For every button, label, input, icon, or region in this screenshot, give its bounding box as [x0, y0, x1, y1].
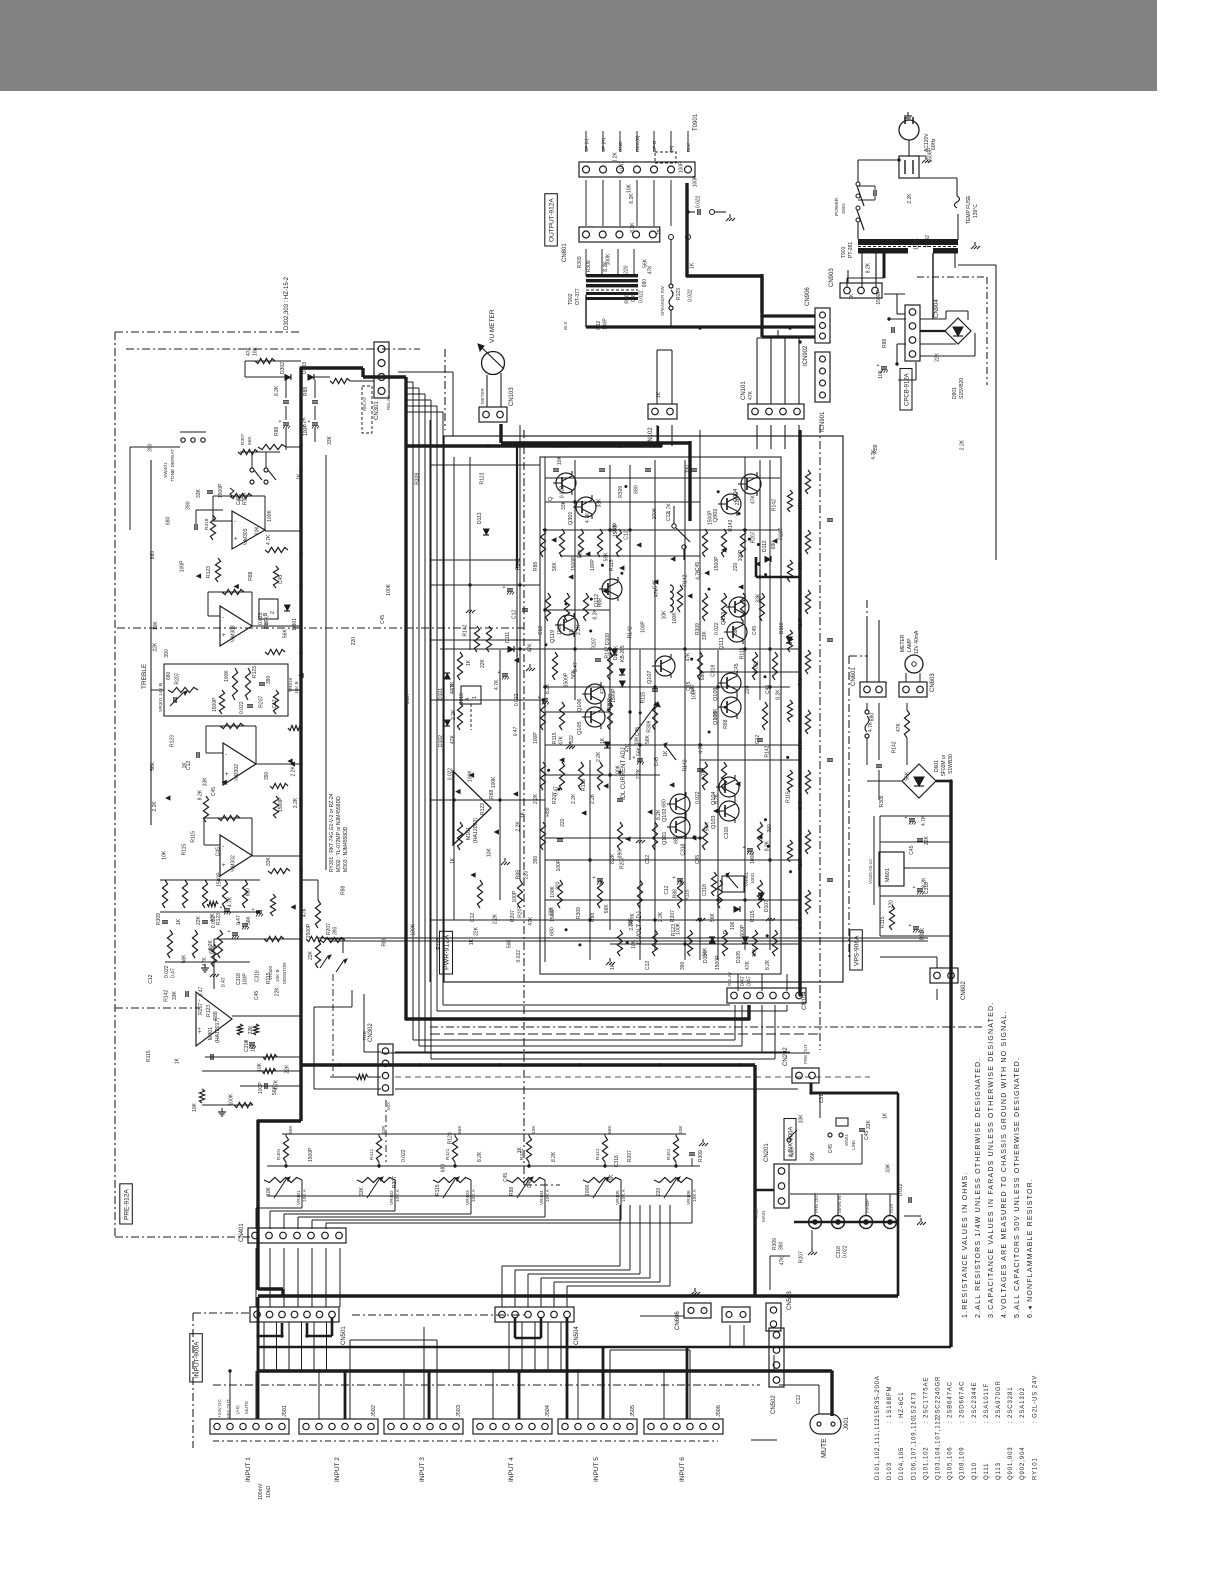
- svg-text:RY301 : RKT-74G,G1-V-2 or RZ-2: RY301 : RKT-74G,G1-V-2 or RZ-24: [329, 793, 335, 872]
- svg-text:C45: C45: [527, 1179, 533, 1188]
- svg-text:MUTE: MUTE: [821, 1438, 828, 1458]
- svg-text:R309: R309: [647, 720, 653, 732]
- svg-text:8.2K: 8.2K: [775, 689, 781, 700]
- svg-text:680: 680: [245, 888, 251, 897]
- svg-text:VR404: VR404: [539, 1190, 545, 1205]
- svg-text:5.ALL CAPACITORS 50V UNLESS OT: 5.ALL CAPACITORS 50V UNLESS OTHERWISE DE…: [1014, 1057, 1021, 1318]
- svg-text:D303: D303: [302, 362, 308, 374]
- svg-text:SP (R): SP (R): [601, 137, 607, 152]
- svg-text:8.2K: 8.2K: [477, 1151, 483, 1162]
- svg-text:R411: R411: [369, 1149, 375, 1160]
- svg-text:PWR-912A: PWR-912A: [444, 935, 451, 970]
- svg-text:R451: R451: [666, 1148, 672, 1160]
- svg-text:2.ALL RESISTORS 1/4W UNLESS OT: 2.ALL RESISTORS 1/4W UNLESS OTHERWISE DE…: [975, 1058, 982, 1318]
- svg-text:C12: C12: [272, 699, 278, 708]
- svg-text:T0901: T0901: [693, 113, 699, 131]
- svg-text:680: 680: [166, 516, 172, 525]
- svg-text:D302,303 : HZ-15-2: D302,303 : HZ-15-2: [284, 276, 290, 330]
- svg-text:0.022: 0.022: [843, 1245, 849, 1258]
- svg-text:J505: J505: [630, 1405, 636, 1417]
- svg-text:22K: 22K: [473, 926, 479, 936]
- svg-text:INPUT 3: INPUT 3: [419, 1457, 426, 1482]
- svg-text:22K: 22K: [480, 658, 486, 668]
- svg-text:1500P: 1500P: [876, 289, 882, 304]
- svg-text:220: 220: [555, 881, 561, 890]
- svg-text:106: 106: [730, 921, 736, 930]
- svg-text:R307: R307: [240, 433, 246, 445]
- svg-text:10K: 10K: [878, 369, 884, 379]
- svg-text:4.7K: 4.7K: [228, 896, 234, 907]
- svg-text:CN904: CN904: [934, 299, 940, 318]
- svg-text:R309: R309: [625, 291, 631, 303]
- svg-text:R88: R88: [213, 1011, 219, 1020]
- svg-text:M302 : TL-072MP or NJM4558DD: M302 : TL-072MP or NJM4558DD: [336, 796, 342, 872]
- svg-text:D104,105: D104,105: [899, 1447, 905, 1480]
- svg-text:10K: 10K: [662, 610, 668, 620]
- svg-text:VR406: VR406: [686, 1190, 692, 1205]
- svg-text:PRE-912A: PRE-912A: [124, 1189, 131, 1220]
- svg-text:R123: R123: [206, 1005, 212, 1017]
- svg-text:+: +: [308, 419, 311, 425]
- svg-text:8.2K: 8.2K: [866, 262, 872, 273]
- svg-text:18K B: 18K B: [294, 681, 299, 694]
- svg-text:8.2K: 8.2K: [405, 693, 411, 704]
- svg-text:100P: 100P: [590, 559, 596, 571]
- svg-text:C318: C318: [255, 970, 261, 982]
- svg-text:56K: 56K: [150, 761, 156, 771]
- svg-text:12V 40mA: 12V 40mA: [914, 630, 920, 654]
- svg-text:R88: R88: [723, 719, 729, 728]
- svg-text:½M303: ½M303: [242, 528, 249, 545]
- svg-text:+: +: [220, 905, 223, 911]
- svg-text:100P: 100P: [556, 859, 562, 871]
- svg-text:C45: C45: [278, 575, 284, 584]
- svg-text:C318: C318: [459, 693, 465, 705]
- svg-text:+: +: [197, 1027, 203, 1030]
- svg-text:R88: R88: [382, 937, 388, 946]
- svg-text:1K: 1K: [520, 811, 526, 818]
- svg-text:1500P: 1500P: [740, 924, 746, 939]
- svg-text:M601: M601: [885, 868, 891, 882]
- svg-text:0.47: 0.47: [221, 977, 227, 987]
- svg-text:56K: 56K: [506, 939, 512, 949]
- svg-text:C12: C12: [470, 913, 476, 922]
- svg-text:C45: C45: [798, 921, 804, 930]
- svg-text:C318: C318: [236, 973, 242, 985]
- svg-text:RY101: RY101: [1032, 1457, 1038, 1480]
- svg-text:5F02M or: 5F02M or: [941, 754, 947, 776]
- svg-text:+: +: [909, 923, 912, 929]
- svg-text:56K: 56K: [604, 904, 610, 914]
- svg-text:1K: 1K: [849, 293, 855, 300]
- svg-text:100K: 100K: [713, 708, 719, 720]
- svg-text:+: +: [238, 920, 241, 926]
- svg-text:M303 : NJM4558DD: M303 : NJM4558DD: [343, 826, 349, 872]
- svg-text:: 2SC2344E: : 2SC2344E: [972, 1382, 978, 1423]
- svg-text:10K A: 10K A: [471, 1188, 477, 1202]
- svg-text:S15VB20: S15VB20: [959, 378, 965, 399]
- svg-text:10K: 10K: [635, 736, 641, 746]
- svg-text:56K: 56K: [288, 1125, 294, 1134]
- svg-text:R88: R88: [489, 790, 495, 799]
- svg-text:10K A: 10K A: [302, 1188, 308, 1202]
- svg-text:+: +: [633, 755, 636, 761]
- svg-text:R88: R88: [545, 807, 551, 816]
- svg-text:100K: 100K: [616, 764, 622, 776]
- svg-text:100P: 100P: [533, 732, 539, 744]
- svg-text:C12: C12: [666, 512, 672, 521]
- svg-text:R421: R421: [445, 1148, 451, 1160]
- svg-text:J901: J901: [844, 1416, 850, 1430]
- svg-text:2.2K: 2.2K: [516, 821, 522, 832]
- svg-text:R207: R207: [198, 1003, 204, 1015]
- svg-text:100P: 100P: [678, 161, 684, 173]
- svg-text:0.47: 0.47: [513, 726, 519, 736]
- svg-text:680: 680: [642, 279, 648, 288]
- svg-text:22K: 22K: [284, 1064, 290, 1074]
- svg-text:C45: C45: [503, 1173, 509, 1182]
- svg-text:8.2K: 8.2K: [545, 683, 551, 694]
- svg-text:R142: R142: [627, 626, 633, 638]
- svg-text:INPUT 5: INPUT 5: [593, 1457, 600, 1482]
- svg-text:680: 680: [661, 799, 667, 808]
- svg-text:Q102: Q102: [662, 809, 668, 822]
- svg-text:1500P: 1500P: [308, 1147, 314, 1162]
- svg-text:+: +: [279, 419, 282, 425]
- svg-text:2.2K: 2.2K: [636, 768, 642, 779]
- svg-text:56K: 56K: [182, 954, 188, 964]
- svg-text:R115: R115: [880, 916, 886, 928]
- svg-text:47K: 47K: [625, 743, 631, 753]
- svg-text:680: 680: [550, 927, 556, 936]
- svg-text:4.7K: 4.7K: [266, 534, 272, 545]
- svg-text:CN601: CN601: [851, 667, 857, 686]
- svg-text:½M302: ½M302: [233, 764, 240, 781]
- svg-text:C318: C318: [702, 884, 708, 896]
- svg-text:R88: R88: [303, 387, 309, 396]
- svg-text:R123: R123: [480, 803, 486, 815]
- svg-text:2: 2: [270, 611, 276, 614]
- svg-text:33K: 33K: [327, 435, 333, 445]
- svg-text:1K: 1K: [656, 391, 662, 398]
- svg-text:680: 680: [870, 713, 876, 722]
- svg-text:10K: 10K: [631, 939, 637, 949]
- svg-text:R115: R115: [191, 831, 197, 843]
- svg-text:4.7K: 4.7K: [450, 681, 456, 692]
- svg-text:47K: 47K: [600, 684, 606, 694]
- svg-text:R207: R207: [259, 696, 265, 708]
- svg-text:MIX OUT: MIX OUT: [226, 1399, 231, 1418]
- svg-text:Q111: Q111: [984, 1463, 990, 1480]
- svg-text:8.2K: 8.2K: [592, 609, 598, 620]
- svg-text:33K: 33K: [264, 620, 270, 630]
- svg-text:R142: R142: [605, 646, 611, 658]
- svg-text:3.CAPACITANCE VALUES IN FARADS: 3.CAPACITANCE VALUES IN FARADS UNLESS OT…: [988, 1002, 995, 1318]
- svg-text:2.2K: 2.2K: [291, 766, 297, 777]
- svg-text:D901: D901: [952, 387, 958, 399]
- svg-text:Q901,903: Q901,903: [1008, 1446, 1014, 1480]
- svg-text:1500P: 1500P: [306, 923, 312, 938]
- svg-text:10K A: 10K A: [621, 1188, 627, 1202]
- svg-text:6.◂ NONFLAMMABLE RESISTOR.: 6.◂ NONFLAMMABLE RESISTOR.: [1027, 1178, 1034, 1318]
- svg-text:R309: R309: [879, 795, 885, 807]
- svg-text:390: 390: [779, 1241, 785, 1250]
- svg-text:CN201: CN201: [764, 1143, 770, 1162]
- svg-text:C45: C45: [216, 847, 222, 856]
- svg-text:S901: S901: [841, 202, 847, 214]
- svg-text:CN401: CN401: [239, 1223, 245, 1242]
- svg-text:Q902: Q902: [713, 509, 719, 522]
- svg-text:C45: C45: [909, 845, 915, 854]
- svg-text:D106,107,109,110: D106,107,109,110: [911, 1417, 917, 1480]
- svg-text:390: 390: [617, 850, 623, 859]
- svg-text:0.47: 0.47: [740, 976, 746, 986]
- svg-text:: 2SC1775AE: : 2SC1775AE: [923, 1377, 929, 1423]
- svg-text:56K: 56K: [710, 912, 716, 922]
- svg-text:R115: R115: [552, 732, 558, 744]
- svg-text:8.2K: 8.2K: [714, 793, 720, 804]
- svg-text:8.2K: 8.2K: [656, 809, 662, 820]
- svg-text:CN302: CN302: [368, 1023, 374, 1042]
- svg-text:C318: C318: [724, 827, 730, 839]
- svg-text:100P: 100P: [258, 1082, 264, 1094]
- svg-text:8.2K: 8.2K: [614, 645, 620, 656]
- svg-text:PT-281: PT-281: [848, 242, 854, 258]
- svg-text:0.022: 0.022: [688, 289, 694, 302]
- svg-text:CN103: CN103: [509, 387, 515, 406]
- svg-text:+24V DC: +24V DC: [217, 1399, 222, 1418]
- svg-text:R88: R88: [248, 571, 254, 580]
- svg-text:R115: R115: [435, 1184, 441, 1196]
- svg-text:CN501: CN501: [341, 1326, 347, 1345]
- svg-text:47K: 47K: [527, 643, 533, 653]
- svg-text:33K: 33K: [359, 1186, 365, 1196]
- svg-text:10K: 10K: [161, 850, 167, 860]
- svg-text:10K: 10K: [266, 1186, 272, 1196]
- svg-text:R142: R142: [682, 759, 688, 771]
- svg-text:220: 220: [733, 562, 739, 571]
- svg-text:C318: C318: [614, 1155, 620, 1167]
- svg-text:R207: R207: [779, 528, 785, 540]
- svg-text:680: 680: [798, 501, 804, 510]
- svg-text:390: 390: [148, 443, 154, 452]
- svg-text:0.022: 0.022: [898, 1183, 904, 1196]
- svg-text:C12: C12: [645, 855, 651, 864]
- svg-text:220: 220: [351, 637, 357, 646]
- svg-text:56K: 56K: [905, 771, 911, 781]
- svg-text:2.2K: 2.2K: [629, 920, 635, 931]
- svg-text:390: 390: [680, 961, 686, 970]
- svg-text:MIX: MIX: [386, 1102, 391, 1110]
- svg-text:R88: R88: [598, 598, 604, 607]
- svg-text:RELAY: RELAY: [362, 397, 367, 411]
- svg-text:47K: 47K: [750, 494, 756, 504]
- svg-text:+: +: [503, 585, 506, 591]
- svg-text:R123: R123: [581, 779, 587, 791]
- svg-text:+: +: [222, 863, 226, 869]
- svg-text:0.022: 0.022: [714, 622, 720, 635]
- svg-text:C45: C45: [631, 293, 637, 302]
- svg-text:56K: 56K: [636, 746, 642, 756]
- svg-text:+: +: [228, 929, 231, 935]
- svg-text:8.2K: 8.2K: [551, 1151, 557, 1162]
- svg-text:ICN902: ICN902: [803, 345, 809, 366]
- svg-text:INPUT 1: INPUT 1: [245, 1457, 252, 1482]
- svg-text:0.022: 0.022: [753, 660, 759, 673]
- svg-text:1K: 1K: [176, 918, 182, 925]
- svg-text:47K: 47K: [748, 390, 754, 400]
- svg-text:: 2SC3281: : 2SC3281: [1008, 1387, 1014, 1423]
- svg-text:R318: R318: [204, 518, 210, 530]
- svg-text:R309: R309: [576, 907, 582, 919]
- svg-text:1K: 1K: [296, 473, 302, 480]
- svg-text:J501: J501: [282, 1405, 288, 1417]
- svg-text:56K: 56K: [642, 258, 648, 268]
- svg-text:R142: R142: [462, 624, 468, 636]
- svg-text:2.2K: 2.2K: [571, 793, 577, 804]
- svg-text:J504: J504: [545, 1405, 551, 1417]
- svg-text:680: 680: [634, 485, 640, 494]
- svg-text:22K: 22K: [274, 987, 280, 997]
- svg-text:R142: R142: [891, 741, 897, 753]
- svg-text:R207: R207: [174, 672, 180, 684]
- svg-text:D601: D601: [934, 760, 940, 772]
- svg-text:4.7K: 4.7K: [701, 769, 707, 780]
- svg-text:56K: 56K: [810, 1151, 816, 1161]
- svg-text:KB-265: KB-265: [620, 645, 626, 662]
- svg-text:4.7K: 4.7K: [699, 743, 705, 754]
- svg-text:56K: 56K: [272, 1086, 278, 1096]
- svg-text:(HA12002): (HA12002): [473, 818, 479, 843]
- svg-text:47K: 47K: [896, 722, 902, 732]
- svg-text:139°C: 139°C: [973, 204, 979, 218]
- svg-text:Q902,904: Q902,904: [1020, 1446, 1026, 1480]
- svg-text:0.022: 0.022: [164, 965, 170, 978]
- svg-text:C45: C45: [254, 991, 260, 1000]
- svg-text:R207: R207: [518, 906, 524, 918]
- svg-text:100P: 100P: [180, 560, 186, 572]
- svg-text:33K: 33K: [203, 777, 209, 787]
- svg-text:POWER: POWER: [834, 197, 840, 216]
- svg-text:C45: C45: [635, 727, 641, 736]
- svg-text:+: +: [593, 875, 596, 881]
- svg-text:220: 220: [735, 497, 741, 506]
- svg-text:4.7K: 4.7K: [868, 721, 874, 732]
- svg-text:100K: 100K: [585, 1184, 591, 1196]
- svg-text:0.022: 0.022: [239, 701, 245, 714]
- svg-text:C45: C45: [734, 663, 740, 672]
- svg-text:MAIN: MAIN: [761, 1211, 766, 1222]
- svg-text:MONITOR: MONITOR: [282, 962, 287, 984]
- svg-text:M301: M301: [208, 1027, 214, 1040]
- svg-text:D302: D302: [280, 362, 286, 374]
- svg-text:4.7K: 4.7K: [921, 815, 927, 826]
- svg-text:REC(B): REC(B): [635, 135, 641, 152]
- svg-text:C45: C45: [211, 787, 217, 796]
- svg-text:R142: R142: [682, 574, 688, 586]
- svg-text:100K: 100K: [672, 612, 678, 624]
- svg-text:10kΩ: 10kΩ: [266, 1486, 272, 1498]
- svg-text:: G2L-US 24V: : G2L-US 24V: [1032, 1375, 1038, 1423]
- svg-text:1K: 1K: [517, 1147, 523, 1154]
- svg-text:1.RESISTANCE VALUES IN OHMS.: 1.RESISTANCE VALUES IN OHMS.: [962, 1171, 969, 1318]
- svg-text:OUTPUT-912A: OUTPUT-912A: [549, 198, 556, 242]
- svg-text:4.VOLTAGES ARE MEASURED TO CHA: 4.VOLTAGES ARE MEASURED TO CHASSIS GROUN…: [1001, 1011, 1008, 1318]
- svg-text:: HZ-6C1: : HZ-6C1: [899, 1391, 905, 1423]
- svg-text:56K: 56K: [552, 561, 558, 571]
- svg-text:TONE DEFEAT: TONE DEFEAT: [170, 449, 176, 482]
- svg-text:0.47: 0.47: [573, 662, 579, 672]
- svg-text:1500P: 1500P: [707, 510, 713, 525]
- svg-text:0.47: 0.47: [171, 968, 177, 978]
- svg-text:VPS-906A: VPS-906A: [854, 935, 861, 966]
- svg-text:100K: 100K: [386, 583, 392, 595]
- svg-text:CN301: CN301: [374, 401, 380, 420]
- svg-text:2.2K: 2.2K: [576, 624, 582, 635]
- svg-text:R115: R115: [684, 889, 690, 901]
- svg-text:1K: 1K: [175, 1057, 181, 1064]
- svg-text:100Ω: 100Ω: [750, 872, 755, 884]
- svg-text:R115: R115: [146, 1050, 152, 1062]
- svg-text:680: 680: [166, 671, 172, 680]
- svg-text:J506: J506: [716, 1405, 722, 1417]
- svg-text:10K: 10K: [531, 1125, 537, 1134]
- svg-text:D105: D105: [736, 951, 742, 963]
- svg-text:22K: 22K: [248, 1025, 254, 1035]
- svg-text:R88: R88: [533, 562, 539, 571]
- svg-text:: 2SA1011F: : 2SA1011F: [984, 1383, 990, 1423]
- svg-text:R123: R123: [676, 288, 682, 300]
- svg-text:R115: R115: [182, 844, 188, 856]
- svg-text:10K: 10K: [153, 621, 159, 631]
- svg-text:33K: 33K: [885, 1163, 891, 1173]
- svg-text:0.47: 0.47: [199, 986, 205, 996]
- svg-text:Q113: Q113: [996, 1462, 1002, 1480]
- svg-text:R207: R207: [799, 1251, 805, 1263]
- svg-text:0.022: 0.022: [448, 768, 454, 781]
- svg-text:CN504: CN504: [574, 1326, 580, 1345]
- svg-text:R309: R309: [586, 260, 592, 272]
- svg-text:R88: R88: [274, 427, 280, 436]
- svg-text:R88: R88: [673, 889, 679, 898]
- svg-text:100mV: 100mV: [258, 1483, 264, 1500]
- svg-text:1500P: 1500P: [611, 688, 617, 703]
- svg-text:PRE: PRE: [754, 1209, 759, 1218]
- svg-text:390: 390: [186, 501, 192, 510]
- svg-text:R123: R123: [479, 472, 485, 484]
- svg-text:1K: 1K: [663, 750, 669, 757]
- svg-text:0.022: 0.022: [211, 915, 217, 928]
- svg-text:RELAY: RELAY: [727, 972, 732, 986]
- svg-text:56K: 56K: [703, 947, 709, 957]
- svg-text:−: −: [197, 999, 203, 1002]
- svg-text:INPUT 6: INPUT 6: [679, 1457, 686, 1482]
- svg-text:100P: 100P: [512, 890, 518, 902]
- svg-text:Q101,102: Q101,102: [923, 1446, 929, 1480]
- svg-text:0.022: 0.022: [514, 693, 520, 706]
- svg-text:R309: R309: [618, 486, 624, 498]
- svg-text:1K: 1K: [600, 737, 606, 744]
- svg-text:680: 680: [798, 741, 804, 750]
- svg-text:56K: 56K: [607, 1125, 613, 1134]
- svg-text:2.2K: 2.2K: [152, 801, 158, 812]
- svg-text:1K: 1K: [883, 1112, 889, 1119]
- svg-text:56K: 56K: [645, 734, 651, 744]
- svg-text:: 2SD667AC: : 2SD667AC: [960, 1381, 966, 1423]
- svg-text:100K: 100K: [224, 670, 230, 682]
- svg-text:390: 390: [685, 465, 691, 474]
- svg-text:0.022: 0.022: [569, 735, 575, 748]
